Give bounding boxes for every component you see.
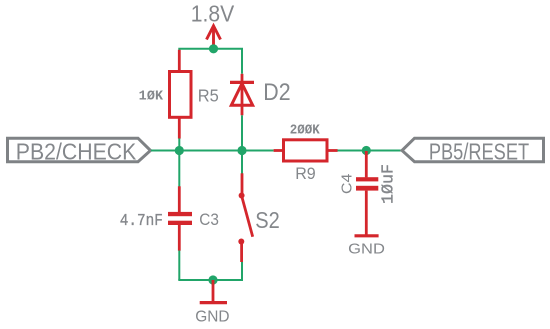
junction dot top (power to net) (209, 44, 218, 53)
wire top horizontal net (179, 49, 242, 74)
svg-text:1ØK: 1ØK (139, 89, 164, 104)
wire main horizontal right (338, 150, 403, 152)
resistor R9 body (284, 140, 328, 161)
wire R5 bottom stub to junction (178, 138, 180, 150)
svg-text:GND: GND (348, 241, 385, 258)
switch S2 pin top (241, 173, 244, 195)
junction dot main-left (175, 146, 184, 155)
wire D2 bottom to main net (241, 115, 243, 150)
ground bar (bottom) (200, 301, 227, 304)
capacitor C4 pin bottom / ground stem (365, 191, 368, 236)
resistor R5 pin top (178, 50, 181, 72)
power supply arrow symbol 1.8V (207, 26, 221, 48)
net label tag PB2/CHECK (8, 138, 151, 162)
svg-text:C4: C4 (339, 174, 356, 194)
svg-text:1ØuF: 1ØuF (378, 164, 397, 204)
resistor R9 pin left (274, 149, 284, 152)
svg-text:D2: D2 (263, 79, 290, 106)
capacitor C3 pin bottom (178, 225, 181, 251)
svg-text:C3: C3 (199, 210, 219, 229)
svg-text:2ØØK: 2ØØK (290, 122, 320, 138)
switch S2 contact dot bottom (238, 239, 244, 245)
ground bar (C4) (355, 234, 379, 237)
capacitor C3 pin top (178, 186, 181, 212)
resistor R5 pin bottom (178, 117, 181, 138)
switch S2 contact dot top (239, 193, 245, 199)
switch S2 pin bottom (240, 242, 243, 263)
svg-text:PB2/CHECK: PB2/CHECK (16, 139, 137, 165)
capacitor C4 plate top (356, 177, 378, 181)
svg-text:GND: GND (195, 309, 229, 326)
svg-text:4.7nF: 4.7nF (120, 212, 163, 231)
wire bottom horizontal (179, 279, 242, 280)
wire S2 top (junction down) (241, 151, 243, 174)
wire C3 top (junction down) (178, 151, 180, 187)
junction dot main-middle (237, 146, 246, 155)
capacitor C4 plate bottom (356, 186, 378, 191)
switch S2 blade (242, 197, 253, 237)
wire S2 bottom (241, 262, 243, 280)
resistor R5 body (170, 72, 192, 118)
resistor R9 pin right (327, 149, 338, 152)
capacitor C4 pin top (365, 151, 368, 177)
diode D2 cathode bar (230, 81, 254, 84)
svg-text:1.8V: 1.8V (191, 1, 235, 27)
svg-text:R9: R9 (295, 165, 316, 183)
capacitor C3 plate bottom (168, 221, 192, 225)
net label tag PB5/RESET (402, 138, 544, 162)
wire main horizontal left (151, 150, 274, 152)
diode D2 pin (vertical through symbol) (241, 74, 244, 116)
svg-text:S2: S2 (255, 207, 279, 233)
junction dot main-right (362, 146, 371, 155)
svg-text:R5: R5 (198, 86, 219, 106)
capacitor C3 plate top (168, 212, 192, 216)
wire C3 bottom (178, 251, 180, 281)
diode D2 triangle (231, 84, 252, 106)
ground stem (bottom) (212, 280, 215, 303)
svg-text:PB5/RESET: PB5/RESET (429, 139, 529, 165)
junction dot bottom (208, 275, 217, 284)
